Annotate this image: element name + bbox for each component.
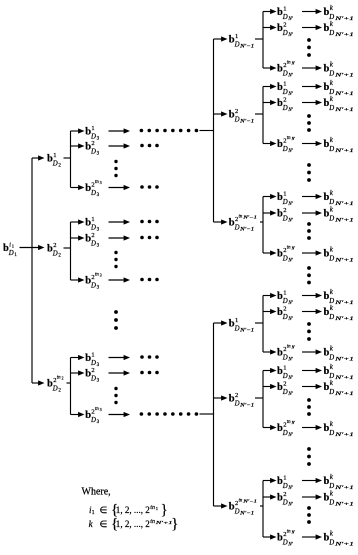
svg-text:k: k	[330, 420, 334, 428]
svg-text:N′+1: N′+1	[334, 376, 354, 381]
node b^2tnN_DN (block 1.3)	[277, 246, 295, 264]
node b^2_D2	[47, 242, 61, 259]
svg-text:N′−1: N′−1	[239, 120, 254, 125]
wire arrow from b^2_D3 (group 3)	[109, 370, 131, 375]
svg-text:D: D	[328, 70, 334, 77]
wire arrow to b^2tnN_DN (block 2.3)	[263, 534, 277, 539]
svg-text:N′+1: N′+1	[334, 503, 354, 508]
svg-text:k: k	[330, 490, 334, 498]
wire arrow to b^k_DN+1 (block 1.1)	[302, 65, 322, 70]
svg-text:k: k	[330, 304, 334, 312]
svg-text:N′: N′	[287, 433, 293, 438]
svg-text:D: D	[90, 190, 96, 197]
svg-text:2: 2	[283, 96, 286, 103]
node b^k_DN+1 (block 1.3)	[324, 246, 354, 264]
ellipsis dots long run	[140, 129, 199, 133]
wire arrow to b^2_DN (block 2.3)	[263, 494, 277, 499]
node b^2_D3 (group 1)	[85, 140, 99, 157]
svg-text:1: 1	[53, 152, 56, 159]
node b^k_DN+1 (block 2.3)	[324, 490, 354, 508]
wire DN bracket vertical	[262, 481, 264, 538]
svg-text:D: D	[282, 430, 288, 437]
svg-text:tn: tn	[239, 499, 243, 504]
svg-text:D: D	[282, 539, 288, 546]
node b^2tnN_DN (block 1.2)	[277, 136, 295, 154]
wire D3 bracket vertical	[70, 222, 72, 280]
wire connector to DN bracket	[255, 322, 264, 324]
svg-text:N′+1: N′+1	[334, 543, 354, 548]
node b^k_DN+1 (block 2.3)	[324, 473, 354, 491]
wire arrow to b^1_DN (block 1.3)	[263, 194, 277, 199]
wire arrow to b^2_DN-1 (block 2)	[214, 395, 228, 400]
wire arrow to b^1_DN (block 2.3)	[263, 478, 277, 483]
svg-text:tn: tn	[150, 505, 155, 511]
svg-text:N′+1: N′+1	[334, 108, 354, 113]
svg-text:3: 3	[97, 228, 100, 233]
node b^1_DN (block 2.3)	[277, 474, 294, 491]
svg-text:D: D	[282, 314, 288, 321]
node b^k_DN+1 (block 2.1)	[324, 288, 354, 306]
ellipsis dots short run	[140, 144, 159, 148]
svg-text:N′: N′	[287, 392, 293, 397]
wire arrow to b^2tnN_DN (block 1.2)	[263, 141, 277, 146]
wire root bracket vertical	[31, 158, 33, 383]
svg-text:1: 1	[283, 5, 286, 12]
node b^1_D2	[47, 152, 61, 169]
svg-text:tn: tn	[239, 215, 243, 220]
wire arrow from b^2_D3 (group 1)	[109, 143, 131, 148]
svg-text:3: 3	[97, 193, 100, 198]
svg-text:D: D	[282, 199, 288, 206]
svg-text:N′: N′	[287, 358, 293, 363]
svg-text:2: 2	[91, 367, 94, 374]
wire arrow to b^2tnN-1_DN-1 (block 1)	[214, 219, 228, 224]
wire right block 2 bracket vertical	[213, 323, 215, 506]
wire arrow to b^2_D3 (group 2)	[71, 235, 85, 240]
wire arrow to b^2tnN_DN (block 1.3)	[263, 250, 277, 255]
where-clause text	[82, 487, 111, 498]
wire arrow to b^2_D3 (group 3)	[71, 370, 85, 375]
svg-text:k: k	[330, 473, 334, 481]
svg-text:1: 1	[14, 253, 17, 258]
svg-text:D: D	[282, 389, 288, 396]
wire arrow to b^k_DN+1 (block 2.3)	[302, 534, 322, 539]
svg-text:tn: tn	[287, 345, 291, 350]
node b^1_D3 (group 2)	[85, 216, 99, 233]
svg-text:N′+1: N′+1	[334, 259, 354, 264]
svg-text:N′−1: N′−1	[239, 45, 254, 50]
node b^1_DN (block 1.3)	[277, 190, 294, 207]
svg-text:D: D	[234, 224, 240, 231]
wire connector to D3 bracket	[64, 247, 72, 249]
wire DN bracket vertical	[262, 296, 264, 353]
svg-text:tn: tn	[95, 273, 99, 278]
svg-text:2: 2	[91, 140, 94, 147]
wire arrow to b^2_DN (block 1.3)	[263, 210, 277, 215]
svg-text:k: k	[330, 288, 334, 296]
svg-text:D: D	[328, 215, 334, 222]
vertical ellipsis inside group 1	[114, 160, 117, 177]
node b^1_DN-1 (block 2)	[229, 317, 254, 334]
svg-text:N′+1: N′+1	[334, 358, 354, 363]
wire D3 bracket vertical	[70, 131, 72, 188]
wire arrow to b^2_DN (block 2.2)	[263, 384, 277, 389]
svg-text:D: D	[234, 325, 240, 332]
vertical ellipsis between sub-blocks (block 2)	[307, 447, 311, 466]
vertical ellipsis inside group 2	[114, 251, 117, 268]
wire arrow to b^2_DN-1 (block 1)	[214, 111, 228, 116]
node b^2tnN-1_DN-1 (block 2)	[229, 499, 257, 517]
wire arrow to b^2tnN_DN (block 2.2)	[263, 425, 277, 430]
wire arrow to b^k_DN+1 (block 2.2)	[302, 368, 322, 373]
wire arrow to b^1_DN (block 2.1)	[263, 293, 277, 298]
svg-text:D: D	[328, 389, 334, 396]
svg-text:k: k	[330, 61, 334, 69]
svg-text:2: 2	[62, 377, 64, 381]
wire arrow to b^k_DN+1 (block 2.1)	[302, 309, 322, 314]
svg-text:3: 3	[97, 244, 100, 249]
svg-text:}: }	[161, 502, 168, 518]
svg-text:k: k	[330, 136, 334, 144]
svg-text:D: D	[328, 314, 334, 321]
svg-text:N′: N′	[287, 376, 293, 381]
svg-text:D: D	[328, 430, 334, 437]
node b^2tnN_DN (block 2.3)	[277, 530, 295, 548]
svg-text:2: 2	[283, 491, 286, 498]
svg-text:1, 2, ..., 2: 1, 2, ..., 2	[116, 520, 150, 530]
svg-text:k: k	[330, 379, 334, 387]
svg-text:1: 1	[92, 510, 95, 516]
svg-text:D: D	[234, 508, 240, 515]
svg-text:1: 1	[283, 364, 286, 371]
node b^2tnN-1_DN-1 (block 1)	[229, 215, 257, 233]
svg-text:N′+1: N′+1	[334, 433, 354, 438]
wire arrow to b^2tnN_DN (block 1.1)	[263, 65, 277, 70]
wire D3 bracket vertical	[70, 358, 72, 415]
wire arrow to b^2tnN-1_DN-1 (block 2)	[214, 503, 228, 508]
svg-text:3: 3	[100, 408, 102, 412]
svg-text:D: D	[282, 105, 288, 112]
svg-text:N′+1: N′+1	[334, 202, 354, 207]
node b^1_DN (block 1.2)	[277, 80, 294, 97]
svg-text:D: D	[234, 116, 240, 123]
svg-text:D: D	[328, 30, 334, 37]
wire arrow to b^k_DN+1 (block 1.2)	[302, 100, 322, 105]
ellipsis dots short run	[140, 236, 159, 240]
svg-text:D: D	[90, 417, 96, 424]
svg-text:N′+1: N′+1	[334, 486, 354, 491]
svg-text:tn: tn	[95, 180, 99, 185]
wire connector to DN bracket	[255, 113, 264, 115]
svg-text:N′: N′	[291, 346, 296, 350]
node b^2_DN (block 2.3)	[277, 491, 294, 508]
node b^k_DN+1 (block 1.1)	[324, 61, 354, 79]
svg-text:3: 3	[97, 286, 100, 291]
svg-text:1: 1	[283, 80, 286, 87]
svg-text:N′: N′	[287, 543, 293, 548]
svg-text:1: 1	[91, 351, 94, 358]
node b^k_DN+1 (block 2.2)	[324, 379, 354, 397]
svg-text:D: D	[234, 400, 240, 407]
svg-text:N′+1: N′+1	[334, 392, 354, 397]
svg-text:k: k	[330, 79, 334, 87]
node b^2_D3 (group 2)	[85, 232, 99, 249]
svg-text:N′: N′	[287, 108, 293, 113]
vertical ellipsis between right blocks	[307, 266, 311, 284]
svg-text:N′−1: N′−1	[242, 500, 257, 504]
svg-text:N′: N′	[287, 149, 293, 154]
wire arrow to b^1_DN-1 (block 2)	[214, 320, 228, 325]
svg-text:tn: tn	[57, 376, 61, 381]
svg-text:k: k	[330, 345, 334, 353]
svg-text:N′: N′	[291, 247, 296, 251]
svg-text:N′+1: N′+1	[334, 92, 354, 97]
wire DN bracket vertical	[262, 371, 264, 428]
wire arrow from b^2tn3_D3 (group 1)	[109, 185, 131, 190]
ellipsis dots long run	[140, 412, 199, 416]
svg-text:D: D	[328, 499, 334, 506]
svg-text:tn: tn	[287, 136, 291, 141]
wire root arrow to b^2_D2	[20, 245, 45, 250]
svg-text:D: D	[282, 373, 288, 380]
node b^1_DN (block 2.1)	[277, 289, 294, 306]
wire connector to DN bracket	[260, 221, 264, 223]
node b^k_DN+1 (block 2.3)	[324, 530, 354, 548]
svg-text:N′: N′	[287, 92, 293, 97]
wire arrow to b^1_D3 (group 3)	[71, 355, 85, 360]
wire arrow from b^1_D3 (group 2)	[109, 219, 131, 224]
ellipsis dots short run	[140, 355, 159, 359]
svg-text:3: 3	[100, 274, 102, 278]
wire into right block	[200, 413, 215, 415]
wire arrow to b^k_DN+1 (block 2.2)	[302, 425, 322, 430]
svg-text:D: D	[328, 105, 334, 112]
svg-text:2: 2	[283, 380, 286, 387]
node b^k_DN+1 (block 2.1)	[324, 345, 354, 363]
svg-text:N′+1: N′+1	[334, 317, 354, 322]
svg-text:N′+1: N′+1	[334, 74, 354, 79]
svg-text:N′−1: N′−1	[239, 228, 254, 233]
svg-text:1: 1	[235, 33, 238, 40]
node b^1_DN-1 (block 1)	[229, 33, 254, 50]
svg-text:D: D	[282, 483, 288, 490]
svg-text:1: 1	[283, 289, 286, 296]
wire connector to DN bracket	[255, 38, 264, 40]
svg-text:D: D	[282, 70, 288, 77]
wire arrow to b^k_DN+1 (block 1.1)	[302, 25, 322, 30]
svg-text:N′+1: N′+1	[334, 17, 354, 22]
wire arrow to b^k_DN+1 (block 1.2)	[302, 84, 322, 89]
svg-text:N′: N′	[287, 74, 293, 79]
svg-text:D: D	[90, 375, 96, 382]
svg-text:N′: N′	[287, 259, 293, 264]
wire arrow to b^k_DN+1 (block 1.1)	[302, 9, 322, 14]
node b^2tn2_D2	[47, 376, 64, 394]
wire arrow to b^1_D3 (group 1)	[71, 128, 85, 133]
svg-text:Where,: Where,	[82, 487, 111, 498]
node b^k_DN+1 (block 1.2)	[324, 95, 354, 113]
vertical ellipsis inside sub-block 2.2	[307, 398, 311, 416]
svg-text:N′: N′	[287, 202, 293, 207]
svg-text:2: 2	[58, 254, 61, 259]
svg-text:D: D	[328, 255, 334, 262]
set definition i1	[89, 502, 168, 518]
node b^k_DN+1 (block 1.1)	[324, 20, 354, 38]
svg-text:D: D	[90, 282, 96, 289]
svg-text:D: D	[8, 250, 14, 257]
svg-text:2: 2	[235, 108, 238, 115]
svg-text:D: D	[282, 30, 288, 37]
wire arrow from b^2tn3_D3 (group 2)	[109, 277, 131, 282]
svg-text:D: D	[282, 499, 288, 506]
node b^1_DN (block 1.1)	[277, 5, 294, 22]
svg-text:tn: tn	[287, 61, 291, 66]
svg-text:∈: ∈	[100, 505, 108, 515]
node b^2_D3 (group 3)	[85, 367, 99, 384]
node b^k_DN+1 (block 1.3)	[324, 206, 354, 224]
svg-text:tn: tn	[287, 246, 291, 251]
svg-text:D: D	[52, 160, 58, 167]
wire arrow to b^2_DN (block 1.1)	[263, 25, 277, 30]
node b^2tn3_D3 (group 1)	[85, 180, 102, 198]
node b^2tnN_DN (block 2.2)	[277, 420, 295, 438]
vertical ellipsis inside sub-block 2.1	[307, 322, 311, 341]
wire connector to DN bracket	[260, 505, 264, 507]
svg-text:3: 3	[97, 420, 100, 425]
svg-text:D: D	[234, 41, 240, 48]
wire arrow to b^2tn3_D3 (group 2)	[71, 277, 85, 282]
svg-text:k: k	[330, 246, 334, 254]
svg-text:k: k	[330, 95, 334, 103]
svg-text:N′: N′	[287, 486, 293, 491]
wire arrow to b^2_DN (block 2.1)	[263, 309, 277, 314]
node b^2tnN_DN (block 2.1)	[277, 345, 295, 363]
svg-text:N′: N′	[291, 137, 296, 141]
vertical ellipsis inside sub-block 1.1	[307, 38, 311, 57]
svg-text:1, 2, ..., 2: 1, 2, ..., 2	[116, 506, 150, 516]
svg-text:tn: tn	[287, 420, 291, 425]
wire connector to DN bracket	[255, 397, 264, 399]
svg-text:k: k	[330, 20, 334, 28]
wire arrow to b^2tnN_DN (block 2.1)	[263, 349, 277, 354]
node b^k_DN+1 (block 2.2)	[324, 420, 354, 438]
svg-text:k: k	[330, 363, 334, 371]
node b^k_DN+1 (block 1.1)	[324, 4, 354, 22]
node b^k_DN+1 (block 2.1)	[324, 304, 354, 322]
svg-text:k: k	[89, 519, 94, 529]
svg-text:k: k	[330, 4, 334, 12]
svg-text:D: D	[282, 354, 288, 361]
node b^k_DN+1 (block 1.2)	[324, 136, 354, 154]
svg-text:2: 2	[283, 21, 286, 28]
wire arrow to b^2tn3_D3 (group 1)	[71, 185, 85, 190]
svg-text:3: 3	[97, 152, 100, 157]
wire connector to D3 bracket	[67, 382, 72, 384]
node b^2_DN (block 1.3)	[277, 207, 294, 224]
wire arrow to b^1_DN (block 1.1)	[263, 9, 277, 14]
wire arrow from b^2_D3 (group 2)	[109, 235, 131, 240]
svg-text:N′: N′	[291, 421, 296, 425]
svg-text:3: 3	[97, 137, 100, 142]
svg-text:k: k	[330, 530, 334, 538]
svg-text:2: 2	[283, 207, 286, 214]
svg-text:D: D	[328, 146, 334, 153]
svg-text:tn: tn	[150, 519, 155, 525]
wire arrow from b^1_D3 (group 1)	[109, 128, 131, 133]
svg-text:1: 1	[156, 506, 158, 511]
wire arrow to b^2tn3_D3 (group 3)	[71, 412, 85, 417]
vertical ellipsis between D2 groups	[114, 310, 118, 330]
wire arrow to b^2_D3 (group 1)	[71, 143, 85, 148]
wire arrow to b^k_DN+1 (block 2.2)	[302, 384, 322, 389]
wire arrow from b^2tn3_D3 (group 3)	[109, 412, 131, 417]
node b^1_D3 (group 1)	[85, 125, 99, 142]
svg-text:N′−1: N′−1	[239, 404, 254, 409]
svg-text:3: 3	[100, 181, 102, 185]
svg-text:D: D	[282, 89, 288, 96]
wire arrow to b^k_DN+1 (block 2.3)	[302, 494, 322, 499]
svg-text:D: D	[328, 354, 334, 361]
svg-text:k: k	[330, 189, 334, 197]
svg-text:tn: tn	[287, 530, 291, 535]
svg-text:N′: N′	[287, 219, 293, 224]
wire arrow to b^2_DN (block 1.2)	[263, 100, 277, 105]
svg-text:1: 1	[91, 125, 94, 132]
svg-text:2: 2	[58, 389, 61, 394]
svg-text:k: k	[330, 206, 334, 214]
svg-text:2: 2	[53, 242, 56, 249]
svg-text:N′: N′	[287, 503, 293, 508]
svg-text:3: 3	[97, 363, 100, 368]
ellipsis dots short run	[140, 371, 159, 375]
node b^k_DN+1 (block 1.2)	[324, 79, 354, 97]
wire arrow to b^2tn2_D2	[32, 380, 45, 385]
node b^i1_D1 root	[3, 242, 17, 258]
wire arrow to b^k_DN+1 (block 1.2)	[302, 141, 322, 146]
wire connector to D3 bracket	[64, 157, 72, 159]
wire arrow to b^k_DN+1 (block 1.3)	[302, 250, 322, 255]
svg-text:N′−1: N′−1	[239, 512, 254, 517]
svg-text:N′: N′	[291, 531, 296, 535]
svg-text:3: 3	[97, 379, 100, 384]
wire arrow from b^1_D3 (group 3)	[109, 355, 131, 360]
svg-text:D: D	[282, 146, 288, 153]
svg-text:N′−1: N′−1	[239, 329, 254, 334]
svg-text:D: D	[282, 215, 288, 222]
node b^2tn3_D3 (group 2)	[85, 273, 102, 291]
svg-text:N′: N′	[291, 62, 296, 66]
svg-text:tn: tn	[95, 407, 99, 412]
svg-text:1: 1	[235, 317, 238, 324]
wire arrow to b^1_DN-1 (block 1)	[214, 36, 228, 41]
vertical ellipsis inside group 3	[114, 387, 117, 404]
wire DN bracket vertical	[262, 197, 264, 254]
ellipsis dots short run	[140, 220, 159, 224]
node b^k_DN+1 (block 1.3)	[324, 189, 354, 207]
svg-text:D: D	[90, 240, 96, 247]
wire into right block	[200, 130, 215, 132]
svg-text:1: 1	[283, 190, 286, 197]
svg-text:2: 2	[283, 305, 286, 312]
ellipsis dots short run	[140, 185, 159, 189]
node b^2_DN (block 1.2)	[277, 96, 294, 113]
node b^2_DN (block 2.1)	[277, 305, 294, 322]
svg-text:1: 1	[91, 216, 94, 223]
wire arrow to b^k_DN+1 (block 1.3)	[302, 210, 322, 215]
vertical ellipsis inside sub-block 1.2	[307, 114, 311, 132]
wire right block 1 bracket vertical	[213, 39, 215, 222]
svg-text:2: 2	[235, 392, 238, 399]
